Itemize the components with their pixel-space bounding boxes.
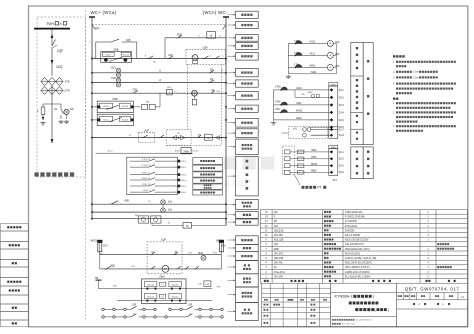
svg-text:U411: U411 — [309, 41, 315, 44]
svg-text:NCF: NCF — [177, 34, 183, 37]
svg-text:V421: V421 — [296, 102, 302, 105]
svg-text:ZNB: ZNB — [113, 98, 118, 101]
svg-text:1HL-4HL: 1HL-4HL — [274, 263, 284, 265]
svg-text:YB: YB — [95, 276, 99, 280]
svg-text:D1-8: D1-8 — [339, 135, 345, 137]
svg-text:1.: 1. — [393, 61, 395, 64]
svg-text:204/220V: 204/220V — [345, 230, 355, 232]
svg-text:2QF: 2QF — [144, 129, 149, 132]
svg-text:KC2-12: KC2-12 — [147, 297, 153, 299]
svg-text:HLG: HLG — [111, 66, 116, 69]
svg-text:KC2-14: KC2-14 — [172, 297, 178, 299]
svg-text:L1: L1 — [162, 284, 164, 286]
svg-text:KFS: KFS — [217, 286, 222, 288]
svg-text:2FU: 2FU — [221, 244, 226, 247]
svg-text:1PA-3PA: 1PA-3PA — [274, 234, 284, 237]
svg-text:FYS9GZ-17/45.0kV: FYS9GZ-17/45.0kV — [345, 217, 366, 219]
svg-text:D2-3: D2-3 — [339, 166, 345, 168]
svg-text:D3-4: D3-4 — [339, 112, 345, 114]
svg-text:TWY-: TWY- — [46, 22, 56, 26]
svg-text:QA: QA — [95, 26, 99, 30]
svg-text:KC2-13: KC2-13 — [122, 119, 128, 121]
svg-text:KC2-10: KC2-10 — [122, 106, 128, 108]
svg-text:K1-9: K1-9 — [175, 151, 180, 153]
svg-text:3.: 3. — [393, 125, 395, 128]
svg-text:NSR-621RF-D01 (CPU): NSR-621RF-D01 (CPU) — [345, 249, 370, 251]
svg-text:HLR: HLR — [111, 77, 116, 80]
svg-text:QF: QF — [210, 78, 214, 81]
svg-text:D3-5: D3-5 — [339, 120, 345, 122]
svg-text:1TA: 1TA — [65, 80, 70, 84]
svg-text:KA02: KA02 — [307, 91, 313, 94]
svg-text:KC2-5: KC2-5 — [103, 119, 108, 121]
svg-text:2WB: 2WB — [183, 150, 189, 153]
svg-text:G1: G1 — [54, 107, 58, 111]
svg-text:RL1-15/10A (RL1-15/6A): RL1-15/10A (RL1-15/6A) — [345, 275, 371, 278]
svg-text:KA1: KA1 — [293, 127, 298, 130]
svg-text:YA: YA — [186, 225, 189, 228]
svg-text:12B: 12B — [113, 286, 117, 288]
svg-text:A: A — [329, 66, 331, 70]
svg-text:D2-1: D2-1 — [339, 152, 345, 154]
svg-text:307. 4F 25 (3): 307. 4F 25 (3) — [342, 324, 355, 326]
svg-text:3.: 3. — [393, 76, 395, 79]
svg-text:1QF: 1QF — [161, 237, 167, 241]
svg-text:D2-2: D2-2 — [339, 159, 345, 161]
svg-text:2WS: 2WS — [159, 275, 165, 279]
svg-text:2TAa: 2TAa — [275, 86, 281, 89]
svg-text:KC2-16: KC2-16 — [123, 55, 129, 57]
svg-text:4.: 4. — [393, 83, 395, 86]
svg-text:N411: N411 — [311, 71, 317, 74]
svg-text:V630: V630 — [311, 157, 317, 159]
svg-text:QF: QF — [210, 68, 214, 71]
svg-text:PT: PT — [318, 186, 322, 190]
svg-text:W630: W630 — [311, 164, 318, 166]
svg-text:N600: N600 — [311, 171, 317, 173]
svg-text:X: X — [59, 22, 62, 26]
svg-text:KC2-7: KC2-7 — [106, 55, 111, 57]
svg-text:KC2-9: KC2-9 — [103, 106, 108, 108]
svg-text:VS1-12/1250-31.5: VS1-12/1250-31.5 — [345, 244, 365, 246]
svg-text:A: A — [329, 54, 331, 58]
svg-text:1FU: 1FU — [274, 226, 279, 228]
svg-text:QM: QM — [274, 212, 278, 214]
svg-text:AD11-25/41-9G (AC220V): AD11-25/41-9G (AC220V) — [345, 262, 372, 265]
svg-text:4SB: 4SB — [124, 200, 129, 203]
svg-text:1PC-3PC: 1PC-3PC — [274, 253, 284, 255]
svg-text:1.5mm: 1.5mm — [413, 77, 420, 79]
svg-text:2HL: 2HL — [168, 210, 173, 212]
svg-text:W421: W421 — [296, 110, 303, 113]
svg-text:a.co1: a.co1 — [224, 178, 249, 189]
svg-text:L2: L2 — [162, 296, 164, 298]
svg-text:U421: U421 — [296, 87, 302, 90]
svg-text:3FT: 3FT — [333, 179, 338, 182]
svg-text:1FU-3FU: 1FU-3FU — [274, 276, 284, 278]
svg-text:D3-1: D3-1 — [339, 90, 345, 92]
svg-text:SA: SA — [274, 266, 278, 269]
svg-text:1HL: 1HL — [168, 201, 173, 203]
svg-text:U630: U630 — [311, 150, 317, 152]
svg-text:WC+ (WCa): WC+ (WCa) — [91, 10, 117, 15]
svg-text:1QF: 1QF — [274, 244, 279, 246]
svg-text:3SQ,2SQ: 3SQ,2SQ — [274, 230, 284, 232]
svg-text:LA25-11 (1K1B), LA25-11 (1B): LA25-11 (1K1B), LA25-11 (1B) — [345, 257, 377, 260]
svg-text:2TA: 2TA — [65, 89, 70, 93]
svg-text:2WB: 2WB — [274, 249, 279, 251]
svg-text:1FU: 1FU — [103, 244, 108, 247]
svg-text:2QB: 2QB — [110, 264, 115, 267]
svg-text:KYN28A-12(: KYN28A-12( — [335, 295, 357, 299]
svg-text:1QF: 1QF — [202, 46, 208, 50]
svg-text:2TAc: 2TAc — [275, 108, 281, 111]
svg-text:K1-10: K1-10 — [193, 151, 200, 153]
svg-text:N421: N421 — [296, 117, 302, 120]
svg-text:LQZBJ-12/A 0.5 150/5A: LQZBJ-12/A 0.5 150/5A — [345, 271, 370, 274]
svg-text:LW12-16D49.4.5708 (F): LW12-16D49.4.5708 (F) — [345, 267, 370, 269]
svg-text:2SQ: 2SQ — [132, 89, 137, 92]
svg-text:42L6-A 150/5A: 42L6-A 150/5A — [345, 234, 361, 237]
svg-text:01 (2008.VIA.05): 01 (2008.VIA.05) — [356, 319, 371, 322]
svg-text:1QF: 1QF — [188, 304, 193, 306]
svg-text:W411: W411 — [309, 65, 316, 68]
svg-text:T2B: T2B — [198, 284, 202, 286]
svg-text:KC2-11: KC2-11 — [147, 285, 153, 287]
svg-text:D3-3: D3-3 — [339, 105, 345, 107]
svg-text:1QB: 1QB — [126, 39, 131, 42]
svg-text:A: A — [329, 42, 331, 46]
svg-text:HLW: HLW — [198, 252, 204, 255]
svg-text:2.: 2. — [393, 71, 395, 74]
svg-text:AD16-22/G28 DC220V: AD16-22/G28 DC220V — [345, 239, 369, 242]
svg-text:1.: 1. — [393, 102, 395, 105]
svg-text:QF: QF — [211, 89, 215, 92]
svg-text:2.: 2. — [393, 111, 395, 114]
svg-text:JY1-8/220V: JY1-8/220V — [345, 221, 358, 223]
svg-text:1TAb: 1TAb — [294, 52, 300, 55]
svg-text:KCF: KCF — [168, 55, 173, 57]
svg-text:V411: V411 — [309, 53, 315, 56]
svg-text:D3-2: D3-2 — [339, 97, 345, 99]
svg-text:1TAa: 1TAa — [294, 40, 300, 43]
svg-text:1.5mm: 1.5mm — [413, 72, 420, 74]
svg-text:C45N-32/2P-10A: C45N-32/2P-10A — [345, 211, 363, 214]
svg-text:D1-7: D1-7 — [339, 129, 345, 131]
svg-text:1SQ: 1SQ — [56, 65, 63, 69]
svg-text:KC2-13: KC2-13 — [172, 285, 178, 287]
svg-text:KLB,1QB: KLB,1QB — [274, 240, 284, 242]
svg-text:2TAb: 2TAb — [275, 101, 281, 104]
svg-text:(WCn) WC-: (WCn) WC- — [203, 10, 228, 15]
svg-text:1SB-4SB: 1SB-4SB — [274, 258, 284, 260]
svg-text:QB/T. GW070704. 017: QB/T. GW070704. 017 — [405, 287, 460, 292]
svg-text:ZNB: ZNB — [114, 48, 119, 51]
svg-text:D2-4: D2-4 — [339, 172, 345, 174]
svg-text:9 3QF 1: 9 3QF 1 — [142, 190, 150, 192]
svg-text:1QF: 1QF — [57, 49, 63, 53]
svg-text:DK: DK — [70, 107, 74, 111]
svg-text:RC54 DC220V: RC54 DC220V — [345, 253, 361, 255]
svg-text:RT14-20/2A: RT14-20/2A — [345, 225, 358, 228]
svg-text:1QF: 1QF — [132, 304, 137, 306]
svg-text:1TAa-1TAc: 1TAa-1TAc — [274, 271, 286, 274]
svg-text:): ) — [388, 308, 389, 312]
svg-text:1TAc: 1TAc — [294, 64, 300, 67]
svg-text:XB: XB — [274, 221, 278, 223]
svg-text:K1-0: K1-0 — [108, 151, 113, 153]
